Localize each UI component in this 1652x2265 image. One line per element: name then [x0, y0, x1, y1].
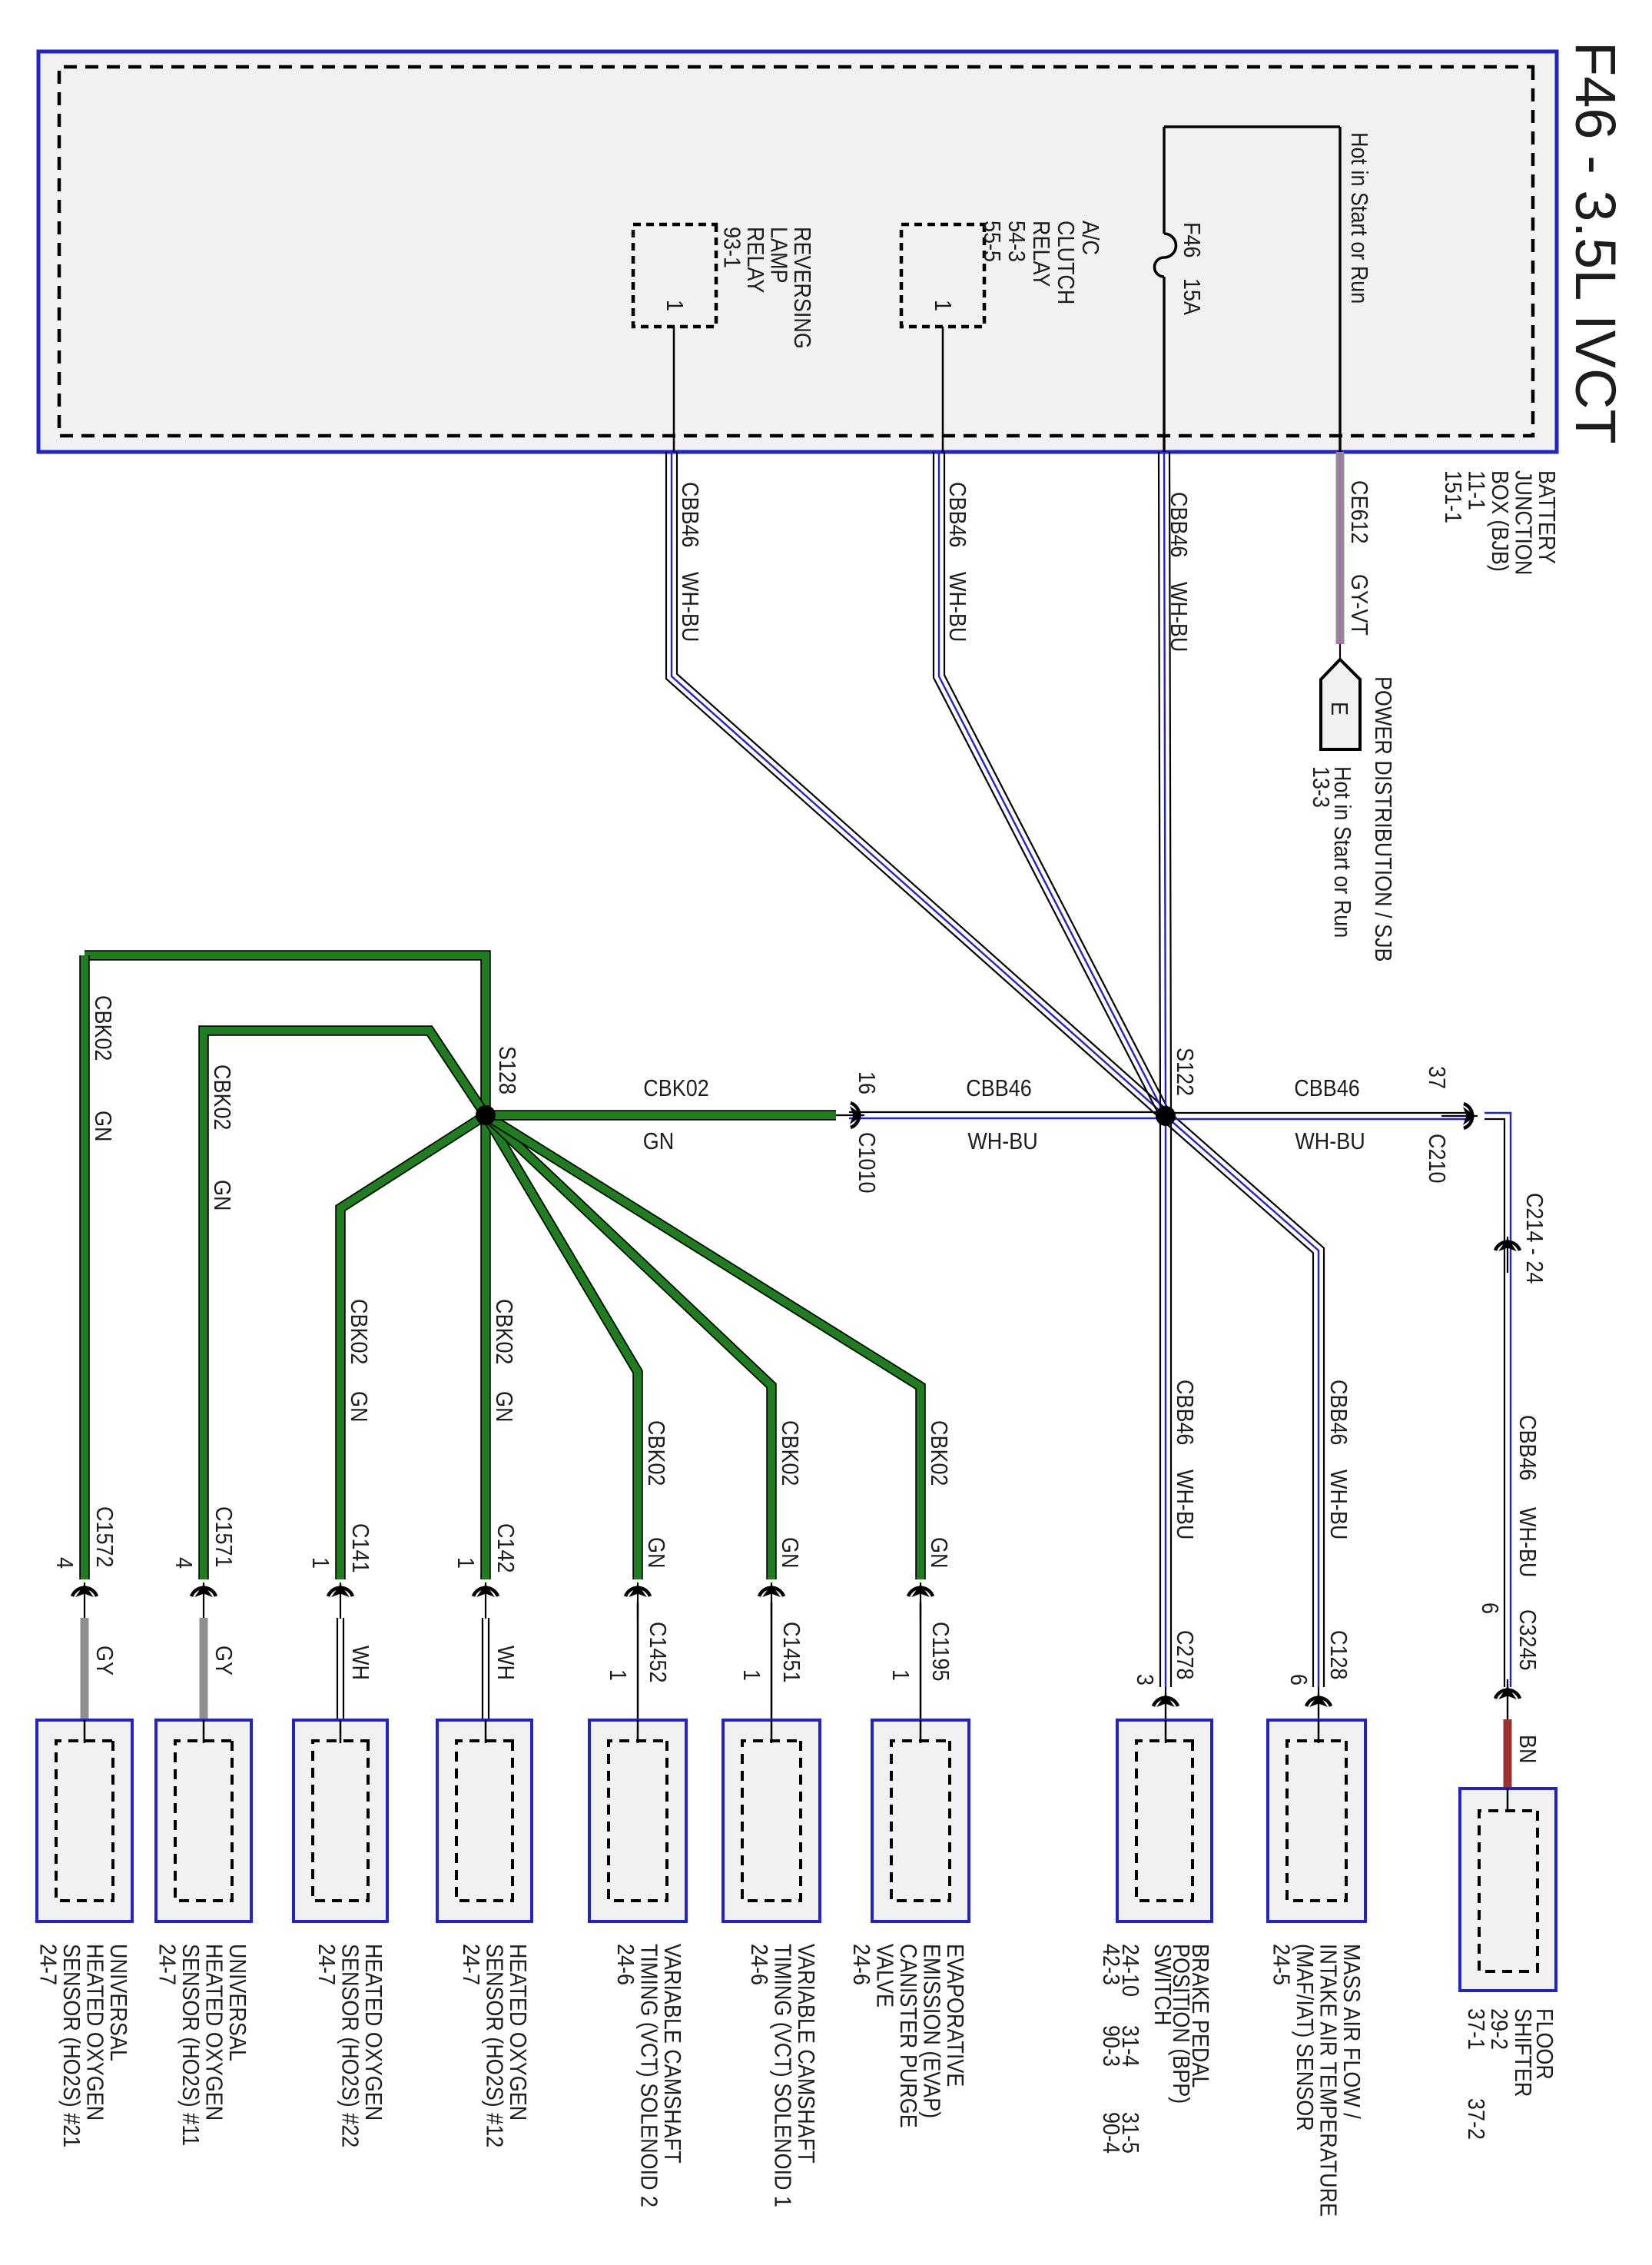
- svg-text:GN: GN: [90, 1111, 116, 1141]
- svg-text:RELAY: RELAY: [1028, 221, 1054, 287]
- svg-text:1: 1: [662, 300, 688, 311]
- svg-text:WH-BU: WH-BU: [944, 572, 970, 642]
- svg-text:HEATED OXYGEN: HEATED OXYGEN: [81, 1944, 108, 2121]
- svg-text:WH-BU: WH-BU: [1166, 582, 1192, 652]
- svg-text:13-3: 13-3: [1308, 766, 1334, 808]
- svg-text:SENSOR (HO2S) #12: SENSOR (HO2S) #12: [481, 1944, 507, 2147]
- svg-text:CBB46: CBB46: [1294, 1075, 1359, 1101]
- svg-text:C1572: C1572: [91, 1506, 118, 1567]
- svg-text:15A: 15A: [1179, 278, 1205, 316]
- svg-text:CBB46: CBB46: [1166, 492, 1192, 557]
- svg-text:WH: WH: [493, 1646, 519, 1680]
- svg-text:1: 1: [605, 1669, 631, 1681]
- svg-text:CE612: CE612: [1346, 480, 1372, 543]
- svg-text:BN: BN: [1514, 1735, 1541, 1763]
- svg-text:RELAY: RELAY: [742, 227, 768, 293]
- svg-text:GY-VT: GY-VT: [1346, 574, 1372, 636]
- svg-text:TIMING (VCT) SOLENOID 2: TIMING (VCT) SOLENOID 2: [635, 1944, 662, 2207]
- svg-text:INTAKE AIR TEMPERATURE: INTAKE AIR TEMPERATURE: [1315, 1944, 1341, 2217]
- svg-text:WH-BU: WH-BU: [967, 1128, 1037, 1154]
- svg-text:24-7: 24-7: [154, 1944, 180, 1985]
- svg-text:EVAPORATIVE: EVAPORATIVE: [942, 1944, 968, 2087]
- svg-text:GN: GN: [777, 1537, 803, 1568]
- svg-text:24-6: 24-6: [612, 1944, 639, 1985]
- svg-text:TIMING (VCT) SOLENOID 1: TIMING (VCT) SOLENOID 1: [769, 1944, 795, 2207]
- svg-text:GN: GN: [643, 1128, 674, 1154]
- svg-text:C141: C141: [347, 1523, 373, 1573]
- svg-text:POWER DISTRIBUTION / SJB: POWER DISTRIBUTION / SJB: [1370, 676, 1396, 962]
- svg-text:C3245: C3245: [1514, 1609, 1541, 1670]
- svg-text:C278: C278: [1172, 1630, 1198, 1679]
- svg-text:C1571: C1571: [211, 1506, 237, 1567]
- svg-text:S122: S122: [1172, 1048, 1198, 1096]
- svg-text:6: 6: [1285, 1674, 1312, 1685]
- svg-text:54-3: 54-3: [1003, 221, 1030, 262]
- svg-text:REVERSING: REVERSING: [789, 227, 815, 349]
- svg-text:90-4: 90-4: [1098, 2112, 1124, 2154]
- svg-text:SENSOR (HO2S) #21: SENSOR (HO2S) #21: [58, 1944, 85, 2147]
- svg-text:HEATED OXYGEN: HEATED OXYGEN: [360, 1944, 386, 2121]
- svg-text:WH-BU: WH-BU: [1295, 1128, 1365, 1154]
- svg-text:37-2: 37-2: [1463, 2098, 1489, 2140]
- svg-text:C1452: C1452: [645, 1622, 671, 1682]
- svg-text:CBK02: CBK02: [926, 1420, 952, 1486]
- svg-text:CANISTER PURGE: CANISTER PURGE: [895, 1944, 921, 2128]
- svg-text:EMISSION (EVAP): EMISSION (EVAP): [918, 1944, 944, 2118]
- svg-text:24-7: 24-7: [458, 1944, 484, 1985]
- svg-text:1: 1: [930, 300, 956, 311]
- svg-text:24-7: 24-7: [35, 1944, 61, 1985]
- svg-text:42-3: 42-3: [1098, 1944, 1124, 1985]
- svg-text:CBK02: CBK02: [491, 1299, 517, 1364]
- svg-text:CBB46: CBB46: [1325, 1380, 1352, 1445]
- svg-text:6: 6: [1477, 1602, 1503, 1614]
- svg-text:F46 - 3.5L IVCT: F46 - 3.5L IVCT: [1564, 42, 1627, 444]
- svg-text:GN: GN: [209, 1180, 235, 1211]
- svg-text:BOX (BJB): BOX (BJB): [1487, 470, 1513, 572]
- svg-text:F46: F46: [1179, 222, 1205, 257]
- svg-text:151-1: 151-1: [1440, 470, 1466, 523]
- svg-text:C1195: C1195: [927, 1622, 954, 1681]
- svg-text:WH-BU: WH-BU: [677, 572, 703, 642]
- svg-text:UNIVERSAL: UNIVERSAL: [105, 1944, 131, 2061]
- svg-text:GY: GY: [91, 1646, 118, 1676]
- svg-text:GN: GN: [491, 1391, 517, 1422]
- svg-text:HEATED OXYGEN: HEATED OXYGEN: [505, 1944, 531, 2121]
- svg-text:C210: C210: [1424, 1134, 1450, 1183]
- svg-text:37-1: 37-1: [1463, 2008, 1489, 2050]
- svg-text:VALVE: VALVE: [871, 1944, 897, 2008]
- svg-text:Hot in Start or Run: Hot in Start or Run: [1346, 132, 1372, 304]
- svg-text:55-5: 55-5: [979, 221, 1005, 262]
- svg-text:HEATED OXYGEN: HEATED OXYGEN: [201, 1944, 227, 2121]
- svg-text:37: 37: [1424, 1066, 1450, 1089]
- svg-text:(MAF/IAT) SENSOR: (MAF/IAT) SENSOR: [1292, 1944, 1318, 2131]
- svg-text:SWITCH: SWITCH: [1149, 1944, 1176, 2025]
- svg-text:CBB46: CBB46: [1514, 1415, 1541, 1480]
- svg-text:C214 - 24: C214 - 24: [1521, 1193, 1548, 1284]
- svg-text:3: 3: [1132, 1674, 1158, 1685]
- svg-text:24-5: 24-5: [1268, 1944, 1294, 1985]
- svg-text:CBB46: CBB46: [677, 482, 703, 547]
- svg-text:CBK02: CBK02: [90, 995, 116, 1061]
- svg-text:24-7: 24-7: [313, 1944, 340, 1985]
- svg-text:GN: GN: [926, 1537, 952, 1568]
- svg-text:CBK02: CBK02: [346, 1299, 372, 1364]
- svg-text:WH-BU: WH-BU: [1514, 1507, 1541, 1577]
- svg-text:LAMP: LAMP: [765, 227, 791, 283]
- svg-text:4: 4: [51, 1557, 78, 1569]
- svg-text:VARIABLE CAMSHAFT: VARIABLE CAMSHAFT: [659, 1944, 685, 2164]
- svg-text:CBK02: CBK02: [209, 1064, 235, 1130]
- svg-text:GY: GY: [211, 1646, 237, 1676]
- svg-text:SENSOR (HO2S) #22: SENSOR (HO2S) #22: [337, 1944, 363, 2147]
- svg-text:24-6: 24-6: [746, 1944, 772, 1985]
- svg-text:1: 1: [738, 1669, 765, 1681]
- svg-text:WH: WH: [347, 1646, 373, 1680]
- svg-text:S128: S128: [494, 1046, 520, 1094]
- svg-text:11-1: 11-1: [1463, 470, 1489, 510]
- svg-text:GN: GN: [346, 1391, 372, 1422]
- svg-text:WH-BU: WH-BU: [1325, 1470, 1352, 1539]
- svg-text:A/C: A/C: [1077, 221, 1103, 255]
- svg-text:VARIABLE CAMSHAFT: VARIABLE CAMSHAFT: [793, 1944, 819, 2164]
- svg-text:CLUTCH: CLUTCH: [1053, 221, 1079, 304]
- svg-text:90-3: 90-3: [1098, 2025, 1124, 2067]
- svg-text:CBK02: CBK02: [643, 1420, 669, 1486]
- svg-text:WH-BU: WH-BU: [1172, 1470, 1198, 1539]
- svg-text:UNIVERSAL: UNIVERSAL: [224, 1944, 250, 2061]
- svg-text:JUNCTION: JUNCTION: [1510, 470, 1536, 575]
- svg-text:1: 1: [307, 1557, 333, 1569]
- svg-text:GN: GN: [643, 1537, 669, 1568]
- svg-text:CBB46: CBB46: [1172, 1380, 1198, 1445]
- svg-text:16: 16: [854, 1071, 880, 1094]
- svg-text:4: 4: [171, 1557, 197, 1569]
- svg-text:1: 1: [453, 1557, 479, 1569]
- svg-text:CBB46: CBB46: [966, 1075, 1031, 1101]
- svg-text:93-1: 93-1: [718, 227, 745, 268]
- svg-text:BATTERY: BATTERY: [1534, 470, 1560, 564]
- svg-text:CBB46: CBB46: [944, 482, 970, 547]
- svg-text:CBK02: CBK02: [777, 1420, 803, 1486]
- svg-text:C128: C128: [1325, 1630, 1352, 1679]
- svg-text:MASS AIR FLOW /: MASS AIR FLOW /: [1339, 1944, 1365, 2120]
- svg-text:E: E: [1326, 702, 1352, 716]
- svg-text:CBK02: CBK02: [643, 1075, 708, 1101]
- svg-text:SENSOR (HO2S) #11: SENSOR (HO2S) #11: [177, 1944, 204, 2146]
- svg-text:24-6: 24-6: [848, 1944, 874, 1985]
- svg-text:SHIFTER: SHIFTER: [1510, 2008, 1536, 2097]
- svg-text:C1451: C1451: [778, 1622, 804, 1682]
- svg-text:C142: C142: [493, 1523, 519, 1573]
- svg-text:1: 1: [887, 1669, 914, 1681]
- svg-text:C1010: C1010: [854, 1132, 880, 1193]
